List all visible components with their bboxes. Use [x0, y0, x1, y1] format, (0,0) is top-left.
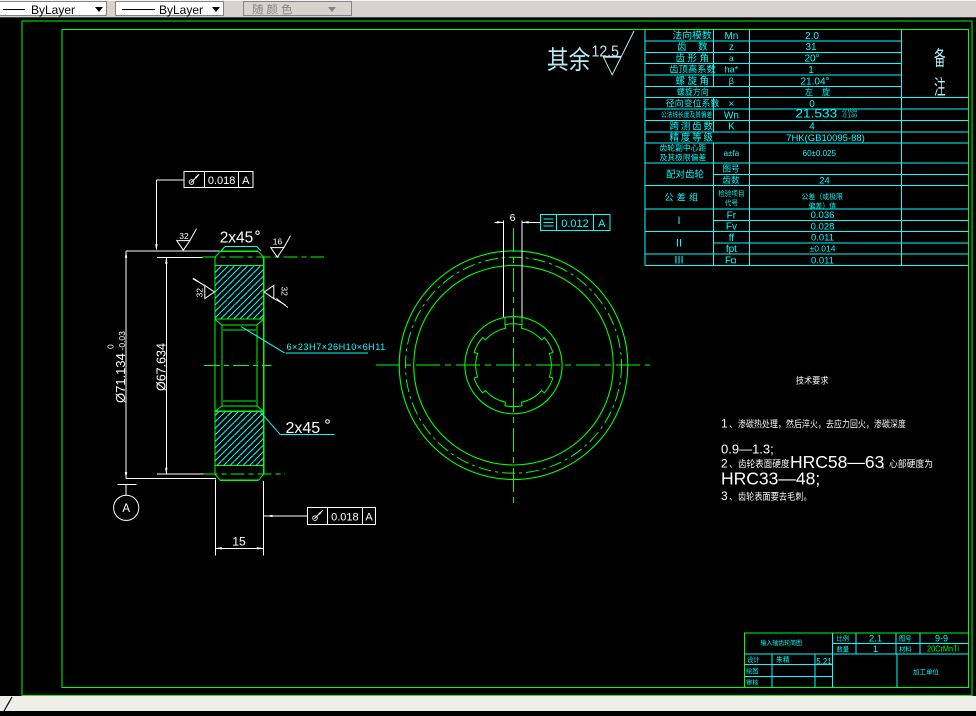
svg-text:0.011: 0.011 [811, 233, 834, 244]
rim hatch top [215, 266, 264, 320]
svg-text:I: I [677, 215, 680, 227]
svg-text:60±0.025: 60±0.025 [803, 149, 837, 158]
dim line dia71.134 [125, 251, 127, 478]
svg-text:0.018: 0.018 [331, 512, 359, 524]
tolerance frame 2 box [541, 215, 610, 231]
ext lines dim 6 [502, 221, 504, 317]
spline bore minor lines [223, 329, 256, 331]
title block text [761, 639, 802, 645]
spline bore major rect [222, 325, 257, 406]
tolerance frame 1 leader [156, 179, 184, 181]
tolerance frame 3 leader [263, 515, 307, 517]
svg-text:Fv: Fv [726, 222, 737, 233]
svg-text:a: a [729, 53, 734, 63]
svg-text:0.9—1.3;: 0.9—1.3; [721, 442, 774, 457]
svg-text:a±fa: a±fa [724, 149, 740, 158]
svg-text:32: 32 [179, 231, 189, 241]
datum A leader [125, 478, 127, 480]
svg-text:12.5: 12.5 [592, 42, 619, 60]
svg-text:A: A [122, 503, 130, 515]
gear section bottom tip edge [220, 479, 258, 481]
svg-text:2.0: 2.0 [805, 31, 819, 42]
svg-text:2x45: 2x45 [220, 229, 254, 246]
svg-text:15: 15 [232, 535, 246, 549]
svg-text:1: 1 [808, 65, 814, 76]
tolerance frame 1 symbol [189, 180, 194, 185]
svg-text:0.012: 0.012 [561, 218, 589, 230]
svg-text:Ø67.634: Ø67.634 [154, 343, 168, 391]
svg-text:3: 3 [721, 489, 728, 503]
svg-text:β: β [729, 76, 734, 86]
front view centerline vertical [513, 228, 515, 503]
svg-text:9-9: 9-9 [935, 633, 948, 643]
gear section pitch dash line bottom [203, 473, 285, 475]
svg-text:ha*: ha* [725, 65, 739, 75]
svg-text:Ø71.134: Ø71.134 [113, 353, 128, 403]
root circle [414, 265, 614, 465]
front view centerline horizontal [376, 364, 650, 366]
ext line 15 left [214, 480, 216, 556]
svg-text:2.1: 2.1 [869, 634, 882, 645]
svg-text:±0.014: ±0.014 [810, 244, 836, 254]
svg-text:II: II [676, 237, 682, 249]
svg-text:1: 1 [721, 417, 728, 431]
svg-text:16: 16 [273, 236, 283, 246]
svg-text:fpt: fpt [726, 244, 737, 255]
svg-text:21.04°: 21.04° [800, 76, 829, 87]
svg-text:Wn: Wn [724, 110, 739, 121]
svg-text:-0.149: -0.149 [842, 114, 858, 120]
svg-text:K: K [728, 122, 735, 133]
ext line 15 right [262, 481, 264, 556]
svg-text:24: 24 [819, 175, 830, 186]
tech req title [796, 376, 828, 385]
svg-text:,: , [882, 458, 885, 470]
svg-text:0.018: 0.018 [208, 175, 236, 187]
svg-text:ff: ff [729, 233, 735, 244]
roughness note symbol [603, 31, 634, 75]
rim hatch bottom [215, 411, 264, 465]
gear section top tip edge [221, 250, 259, 252]
tolerance frame 2 symbol [544, 218, 554, 220]
dim text dia71.134 [106, 331, 129, 403]
dim line 15 [215, 547, 263, 549]
svg-text:32: 32 [195, 288, 205, 298]
tolerance frame 3 symbol [313, 516, 318, 521]
table grid [645, 40, 902, 42]
spline bore profile [474, 324, 553, 407]
svg-text:A: A [598, 218, 606, 230]
svg-text:31: 31 [805, 42, 817, 53]
svg-text:1: 1 [873, 644, 878, 655]
dim text dia67.634 [154, 343, 168, 391]
table text [673, 30, 712, 39]
svg-text:0.036: 0.036 [811, 210, 835, 221]
svg-text:5.21: 5.21 [816, 657, 832, 666]
surface mark 32 left [193, 279, 215, 299]
gear section tip chamfer top edge (cyan) [225, 246, 257, 248]
svg-text:Mn: Mn [724, 31, 738, 42]
surface mark 32 right [264, 286, 286, 306]
svg-text:32: 32 [280, 286, 290, 296]
svg-text:×: × [728, 99, 734, 110]
roughness note text [548, 47, 590, 71]
section centerline [204, 365, 272, 367]
ext line dia67 top [157, 256, 203, 258]
linetype combo 1 [0, 1, 107, 16]
keyway slot sides [504, 317, 506, 324]
color combo (disabled) [243, 1, 352, 16]
tolerance frame 3 box [308, 508, 376, 525]
surface mark 32 top-left [177, 229, 197, 251]
gear section side edges [214, 257, 216, 474]
svg-text:0.011: 0.011 [811, 255, 834, 266]
svg-text:20°: 20° [804, 54, 819, 65]
title block grid [832, 633, 834, 688]
pitch circle dashed [406, 257, 622, 473]
bore chamfer edges [215, 319, 264, 411]
table remark header [934, 48, 945, 67]
surface mark 16 top-right [271, 236, 291, 258]
svg-text:A: A [242, 175, 250, 187]
svg-text:6×23H7×26H10×6H11: 6×23H7×26H10×6H11 [287, 342, 386, 352]
status bar [0, 696, 976, 711]
svg-text:4: 4 [809, 122, 815, 133]
ext line dia67 bottom [157, 473, 203, 475]
svg-text:20CrMnTi: 20CrMnTi [927, 644, 959, 653]
gear section pitch dash line top [203, 256, 324, 258]
svg-text:21.533: 21.533 [795, 106, 837, 120]
svg-text:F: F [725, 255, 731, 266]
svg-text:6: 6 [510, 212, 516, 224]
ext line dia71 top [126, 250, 220, 252]
svg-text:HRC33—48;: HRC33—48; [721, 469, 820, 489]
AutoCAD toolbar [0, 0, 976, 18]
datum A circle [114, 495, 139, 520]
svg-text:A: A [365, 512, 373, 524]
ext line dia71 bottom [126, 478, 216, 480]
title block outer frame [744, 633, 968, 688]
svg-text:Fr: Fr [727, 210, 737, 221]
tolerance frame 1 box [184, 172, 253, 188]
dim line dia67.634 [165, 257, 167, 474]
linetype combo 2 [115, 1, 224, 16]
svg-text:z: z [729, 42, 734, 53]
svg-text:0.028: 0.028 [811, 221, 835, 232]
svg-text:7HK(GB10095-88): 7HK(GB10095-88) [786, 133, 865, 144]
gear section root lines [215, 265, 264, 267]
svg-text:0: 0 [106, 344, 116, 349]
svg-text:III: III [674, 255, 683, 267]
tip circle [399, 251, 628, 480]
svg-text:-0.03: -0.03 [117, 331, 127, 351]
dim 6 arrows [495, 221, 504, 223]
hub circle [465, 317, 562, 414]
